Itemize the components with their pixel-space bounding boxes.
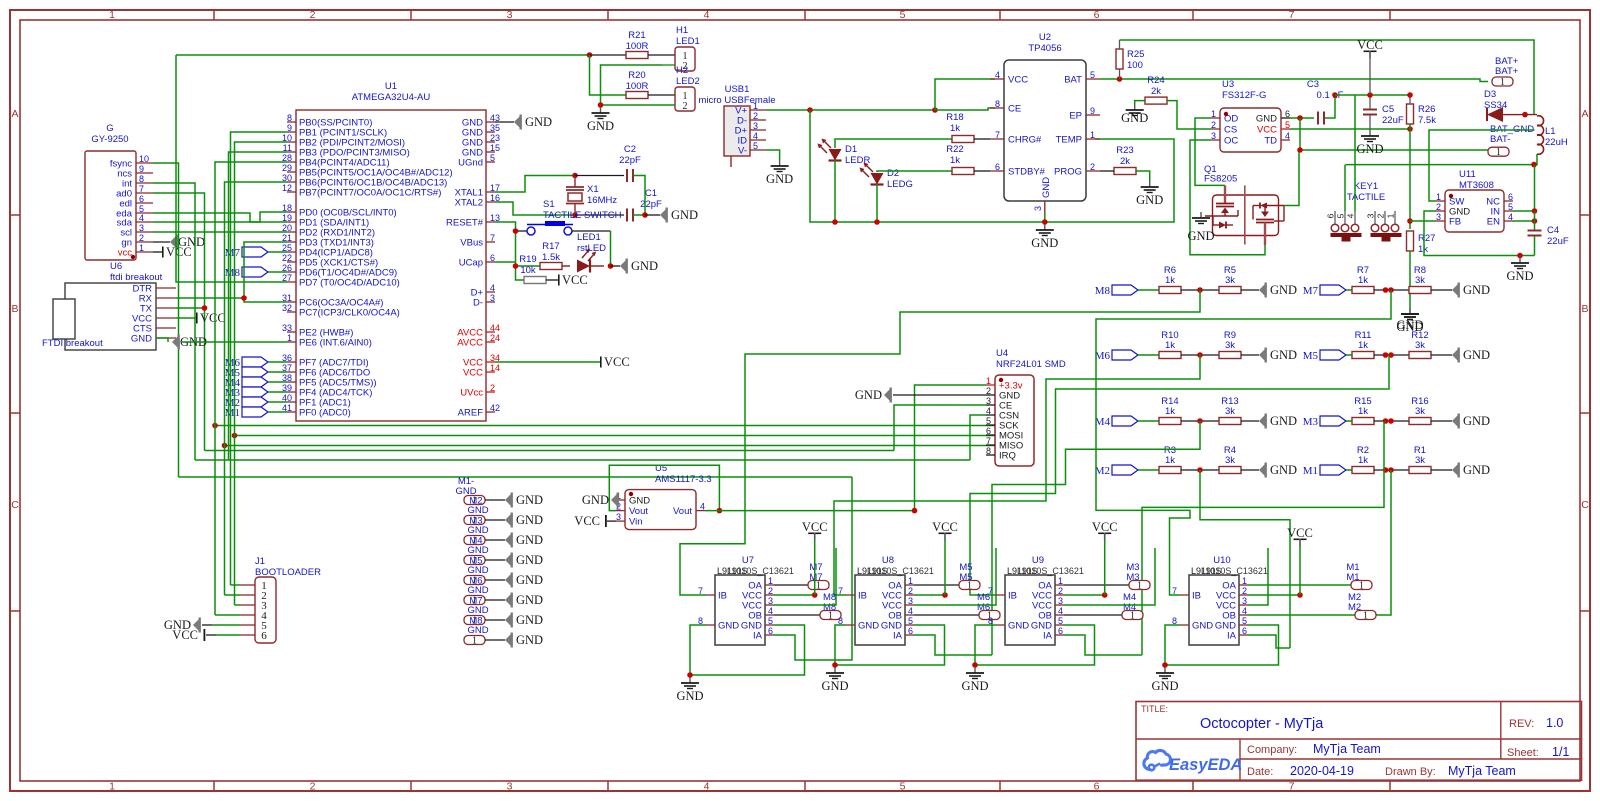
logo EasyEDA (1144, 750, 1242, 774)
ground earth U9 (961, 667, 988, 693)
svg-text:GND: GND (1463, 283, 1490, 297)
junction M3 net a (1383, 418, 1389, 424)
svg-text:U11: U11 (1459, 169, 1476, 180)
wire V+ to U2 CE (935, 108, 995, 110)
net port M3 (1303, 416, 1346, 428)
connector J1 BOOTLOADER (240, 556, 321, 643)
svg-text:1k: 1k (1418, 244, 1428, 255)
svg-text:4: 4 (490, 283, 495, 293)
wire u9 vccdrop (1104, 540, 1106, 595)
svg-text:GND: GND (516, 573, 543, 587)
svg-text:1k: 1k (1358, 455, 1368, 466)
svg-text:3: 3 (1033, 206, 1043, 211)
wire u4 gnd (893, 394, 986, 396)
wire X1bot-C1 (575, 214, 624, 216)
svg-text:BAT+: BAT+ (1495, 66, 1519, 77)
net port M4 (1095, 416, 1138, 428)
svg-text:U9: U9 (1032, 555, 1044, 566)
svg-text:1: 1 (967, 581, 972, 592)
connector U9 out1 (1129, 581, 1150, 592)
wire u8 ob (914, 614, 979, 616)
svg-text:VCC: VCC (200, 311, 226, 325)
wire u7 gnd5 (690, 625, 805, 675)
svg-text:33: 33 (282, 323, 292, 333)
wire u10 ob (1248, 614, 1355, 616)
connector U8 out2 (979, 611, 1000, 622)
wire C2-right (633, 176, 645, 216)
junction u9 gnd (972, 662, 978, 668)
connector USB1 micro USBFemale (698, 84, 775, 167)
svg-text:GND: GND (629, 496, 650, 507)
resistor R18 1k (946, 112, 974, 143)
svg-text:2k: 2k (1151, 86, 1161, 97)
wire M2 (1138, 469, 1159, 471)
wire M7 drop (1096, 290, 1391, 595)
svg-text:FS312F-G: FS312F-G (1222, 90, 1266, 101)
svg-text:100: 100 (1127, 60, 1143, 71)
ground earth U10 (1151, 667, 1178, 693)
svg-text:IB: IB (1008, 591, 1017, 602)
svg-text:VCC: VCC (1287, 526, 1313, 540)
svg-text:U8: U8 (882, 555, 894, 566)
svg-text:7: 7 (1289, 9, 1295, 21)
wire G ad0 down (153, 193, 205, 451)
svg-text:2: 2 (986, 386, 991, 396)
svg-text:GND: GND (467, 525, 488, 536)
wire bus1 SCK (215, 425, 995, 427)
svg-text:1: 1 (753, 101, 758, 111)
svg-text:3: 3 (490, 293, 495, 303)
connector U6 ftdi breakout (42, 261, 176, 350)
svg-text:R26: R26 (1418, 104, 1435, 115)
svg-text:35: 35 (490, 123, 500, 133)
svg-text:V-: V- (738, 146, 747, 157)
svg-text:D2: D2 (887, 168, 899, 179)
wire u8 vccdrop (944, 540, 946, 595)
svg-text:1: 1 (472, 636, 477, 647)
svg-text:7: 7 (995, 130, 1000, 140)
svg-text:R25: R25 (1127, 49, 1144, 60)
svg-text:REV:: REV: (1509, 718, 1534, 730)
junction batminus (1297, 147, 1303, 153)
wire to R21 (590, 54, 627, 56)
junction VCC branch (932, 107, 938, 113)
resistor R19 10k (519, 254, 546, 284)
svg-text:VCC: VCC (1257, 125, 1277, 136)
text U8 M6 (977, 592, 990, 613)
svg-text:GND: GND (467, 505, 488, 516)
svg-text:6: 6 (1094, 9, 1100, 21)
svg-text:GND: GND (516, 553, 543, 567)
junction L1 bot (1531, 162, 1537, 168)
ground flag G-gn (170, 235, 205, 250)
svg-text:U10: U10 (1213, 555, 1230, 566)
ground flag col6 (505, 613, 543, 628)
svg-text:4: 4 (1508, 212, 1513, 222)
svg-text:U3: U3 (1222, 79, 1234, 90)
wire R22-STDBY (974, 170, 990, 172)
ground earth USB (766, 160, 793, 186)
svg-text:7: 7 (1289, 781, 1295, 793)
wire U6 VCC (176, 317, 196, 319)
svg-text:GND: GND (1136, 193, 1163, 207)
svg-text:1: 1 (139, 243, 144, 253)
sensor G GY-9250 (85, 123, 153, 260)
resistor R8 3k (1409, 265, 1431, 294)
wire R6-R5 (1181, 289, 1219, 291)
junction bus1 (212, 423, 218, 429)
wire u5 vin (607, 520, 616, 522)
capacitor C1 22pF (627, 188, 662, 222)
svg-text:Date:: Date: (1247, 766, 1273, 778)
wire R26-R27 (1409, 124, 1411, 229)
svg-text:3k: 3k (1225, 275, 1235, 286)
svg-text:5: 5 (1058, 616, 1063, 626)
svg-text:29: 29 (282, 163, 292, 173)
wire vert pb2 to J1 pin3 (235, 142, 288, 605)
svg-text:FTDI breakout: FTDI breakout (42, 338, 103, 349)
wire U2 GND3 (1044, 213, 1046, 222)
svg-text:6: 6 (261, 630, 267, 642)
svg-text:M7: M7 (1303, 285, 1319, 297)
svg-text:GND: GND (467, 585, 488, 596)
svg-text:4: 4 (1346, 213, 1356, 218)
wire u8 gnd5 (835, 625, 945, 665)
power flag VCC U10 (1287, 526, 1313, 547)
svg-text:C: C (11, 499, 19, 511)
junction M1 net a (1383, 467, 1389, 473)
wire U3 VCC5 (1290, 128, 1410, 130)
wire U3 gnd6 (1290, 117, 1314, 119)
svg-text:VCC: VCC (802, 520, 828, 534)
svg-text:IA: IA (753, 631, 763, 642)
wire u7 vcc (774, 594, 815, 596)
wire C4 bottom (1534, 236, 1536, 256)
connector 1- gnd (464, 636, 485, 647)
svg-text:PD7 (T0/OC4D/ADC10): PD7 (T0/OC4D/ADC10) (299, 278, 400, 289)
svg-text:GND: GND (467, 605, 488, 616)
svg-text:B: B (11, 303, 18, 315)
svg-text:VCC: VCC (932, 520, 958, 534)
wire u10 oa (1248, 584, 1351, 586)
wire U6 TX (176, 307, 205, 309)
svg-text:GND: GND (766, 172, 793, 186)
junction M3 net b (1388, 418, 1394, 424)
svg-text:M3: M3 (1303, 416, 1319, 428)
svg-text:2: 2 (1090, 162, 1095, 172)
svg-text:H2: H2 (676, 65, 688, 76)
wire H2 pin2 (601, 104, 676, 106)
wire u8 oa (914, 584, 959, 586)
svg-text:B: B (1581, 303, 1588, 315)
net port M6 at U1 PF (225, 357, 268, 369)
capacitor C2 22pF (619, 144, 641, 182)
wire u7 ob (774, 614, 820, 616)
junction u10 vcc (1297, 592, 1303, 598)
svg-text:EP: EP (1069, 111, 1082, 122)
svg-text:6: 6 (139, 194, 144, 204)
wire M8 drop to U7 IB (680, 290, 1200, 595)
resistor R14 1k (1159, 396, 1181, 425)
svg-text:1k: 1k (1358, 340, 1368, 351)
svg-text:D-: D- (473, 298, 483, 309)
svg-text:C5: C5 (1382, 104, 1394, 115)
svg-text:IA: IA (1227, 631, 1237, 642)
wire u9 ia riser (1064, 635, 1142, 655)
svg-text:D1: D1 (845, 144, 857, 155)
svg-text:2: 2 (490, 383, 495, 393)
svg-text:2: 2 (1058, 586, 1063, 596)
svg-text:1: 1 (1242, 576, 1247, 586)
svg-text:UGnd: UGnd (458, 158, 483, 169)
junction D1 gnd (832, 219, 838, 225)
svg-text:S1: S1 (543, 199, 555, 210)
svg-text:EasyEDA: EasyEDA (1169, 756, 1242, 774)
net port M8 at U1 PD6 (225, 267, 268, 279)
svg-text:TD: TD (1264, 136, 1277, 147)
svg-text:22uF: 22uF (1382, 115, 1404, 126)
wire M6- gnd (485, 579, 505, 581)
svg-text:6: 6 (1242, 626, 1247, 636)
wire G scl to U1 PD2 (153, 231, 287, 233)
svg-text:2k: 2k (1120, 156, 1130, 167)
junction M8 net (1197, 287, 1203, 293)
svg-text:R24: R24 (1147, 75, 1164, 86)
net port M1 at U1 PF (225, 407, 268, 419)
wire vert pb6 to J1 pin2 (225, 182, 288, 595)
svg-text:VCC: VCC (574, 514, 600, 528)
text U7 M8 (823, 592, 836, 613)
connector M3- gnd (464, 516, 489, 537)
wire vert pb3 (229, 152, 288, 460)
svg-text:1: 1 (109, 781, 115, 793)
svg-text:1k: 1k (1165, 340, 1175, 351)
svg-text:4: 4 (753, 131, 758, 141)
svg-text:3: 3 (1366, 213, 1376, 218)
svg-text:2: 2 (768, 586, 773, 596)
svg-text:U7: U7 (742, 555, 754, 566)
resistor R26 7.5k (1407, 104, 1437, 126)
svg-text:PB7(PCINT7/OC0A/OC1C/RTS#): PB7(PCINT7/OC0A/OC1C/RTS#) (299, 188, 441, 199)
junction M7 net b (1388, 287, 1394, 293)
svg-text:C4: C4 (1547, 225, 1559, 236)
power flag VCC J1 bar (172, 628, 205, 642)
svg-text:OC: OC (1224, 136, 1238, 147)
wire R24 left (1135, 101, 1145, 104)
junction u7 gnd (687, 672, 693, 678)
svg-text:1: 1 (816, 581, 821, 592)
resistor R25 100 (1116, 40, 1144, 79)
wire X1top-C2 (575, 175, 624, 177)
svg-text:Octocopter - MyTja: Octocopter - MyTja (1200, 716, 1324, 732)
svg-text:1: 1 (1211, 109, 1216, 119)
svg-text:2: 2 (753, 111, 758, 121)
junction U2 gnd (1042, 219, 1048, 225)
wire R2-R1 (1374, 469, 1409, 471)
resistor R2 1k (1352, 445, 1374, 474)
mosfet Q1 FS8205 (1204, 164, 1284, 245)
svg-text:6: 6 (1326, 213, 1336, 218)
capacitor C5 22uF (1363, 104, 1404, 126)
junction M7 net a (1383, 287, 1389, 293)
svg-text:VCC: VCC (562, 273, 588, 287)
svg-text:TEMP: TEMP (1056, 135, 1082, 146)
wire M7- gnd (485, 599, 505, 601)
svg-text:M8: M8 (225, 267, 241, 279)
wire R10-R9 (1181, 354, 1219, 356)
wire R5-gnd (1241, 289, 1259, 291)
wire S1 right down (610, 231, 612, 266)
svg-text:7: 7 (986, 436, 991, 446)
power flag VCC U6 (196, 311, 226, 325)
wire U3 OD (1195, 118, 1225, 185)
svg-text:1: 1 (1359, 581, 1364, 592)
svg-text:3k: 3k (1415, 340, 1425, 351)
power flag VCC U7 (802, 520, 828, 541)
ground earth ladder (1401, 308, 1419, 320)
svg-text:M7: M7 (225, 247, 241, 259)
svg-text:CS: CS (1224, 125, 1237, 136)
wire R13-gnd (1241, 420, 1259, 422)
junction M1 net b (1388, 467, 1394, 473)
svg-text:J1: J1 (255, 556, 265, 567)
power flag VCC U8 (932, 520, 958, 541)
ground earth H1H2 (587, 107, 614, 133)
svg-text:32: 32 (282, 303, 292, 313)
wire USB V+ (766, 109, 935, 111)
svg-text:1k: 1k (1358, 406, 1368, 417)
wire M6 (268, 361, 287, 363)
ground earth U2 (1031, 224, 1058, 250)
text BAT- (1490, 134, 1510, 145)
svg-text:C2: C2 (624, 144, 636, 155)
wire u9 gnd8 (975, 625, 996, 665)
wire R27 bottom (1409, 251, 1411, 308)
wire M3 drop to U9 IA (1142, 421, 1384, 655)
resistor R23 2k (1114, 145, 1136, 175)
svg-text:22pF: 22pF (619, 155, 641, 166)
wire U6 RX (176, 297, 244, 299)
svg-text:BAT: BAT (1064, 75, 1082, 86)
regulator U5 AMS1117-3.3 (616, 463, 712, 530)
svg-text:R19: R19 (519, 254, 536, 265)
svg-text:2: 2 (310, 9, 316, 21)
svg-text:5: 5 (908, 616, 913, 626)
ground flag rstLED (620, 259, 658, 274)
connector U9 out2 (1122, 611, 1143, 622)
wire USB V- (766, 150, 780, 160)
connector M4- gnd (464, 536, 489, 557)
wire M1 drop to U10 OB (1376, 470, 1391, 615)
svg-text:1: 1 (908, 576, 913, 586)
connector H2 LED2 (675, 65, 700, 112)
wire to gndflag rst (611, 265, 621, 267)
wire G fsync down (153, 163, 179, 477)
svg-text:GND: GND (1463, 463, 1490, 477)
wire G int down (153, 183, 195, 460)
resistor R3 1k (1159, 445, 1181, 474)
wire j1p4 (215, 614, 240, 616)
svg-text:U2: U2 (1039, 32, 1051, 43)
text M1- header (455, 476, 476, 497)
resistor R6 1k (1159, 265, 1181, 294)
svg-text:GND: GND (631, 259, 658, 273)
svg-text:5: 5 (900, 781, 906, 793)
wire M5 drop to U9 IB (970, 355, 1389, 595)
ground earth R27 (1396, 308, 1423, 334)
resistor R11 1k (1352, 330, 1374, 359)
svg-text:R21: R21 (628, 30, 645, 41)
wire VCC right down (1369, 58, 1371, 95)
wire u7 gnd8 (690, 625, 706, 675)
svg-text:GND: GND (131, 334, 152, 345)
wire H1 pin2 down (601, 65, 663, 105)
svg-text:4: 4 (139, 213, 144, 223)
junction C4 gnd (1517, 253, 1523, 259)
ground flag R16 (1452, 414, 1490, 429)
ground flag col3 (505, 553, 543, 568)
svg-text:M1: M1 (1303, 465, 1318, 477)
ground flag R9 (1259, 348, 1297, 363)
junction u9 vcc (1102, 592, 1108, 598)
junction X1 top (572, 173, 578, 179)
junction C5 top (1367, 92, 1373, 98)
svg-text:4: 4 (768, 606, 773, 616)
wire 3v3 rail (705, 510, 915, 512)
svg-text:LEDG: LEDG (887, 179, 913, 190)
wire M8 (1138, 289, 1159, 291)
resistor R5 3k (1219, 265, 1241, 294)
svg-text:GND: GND (1270, 283, 1297, 297)
junction reset sw (513, 228, 519, 234)
svg-text:2: 2 (1242, 586, 1247, 596)
svg-text:MyTja Team: MyTja Team (1313, 742, 1381, 756)
svg-text:AMS1117-3.3: AMS1117-3.3 (655, 474, 712, 485)
wire 1- gnd (485, 639, 505, 641)
svg-text:D3: D3 (1484, 89, 1496, 100)
wire U3 OC (1190, 140, 1265, 255)
wire u5 vout2 loop (609, 465, 719, 510)
wire U1 pin43 to GND (495, 121, 514, 123)
svg-text:IB: IB (858, 591, 867, 602)
svg-text:M5: M5 (1303, 350, 1319, 362)
text U7 M7 (809, 562, 822, 583)
wire UCap (495, 261, 516, 263)
diode D3 SS34 (1484, 89, 1519, 122)
wire bus4 CE (205, 450, 895, 452)
wire M3- gnd (485, 519, 505, 521)
rf module U4 NRF24L01 SMD (986, 348, 1066, 466)
net port M5 at U1 PF (225, 367, 268, 379)
capacitor C4 22uF (1528, 225, 1569, 247)
ground flag R8 (1452, 283, 1490, 298)
svg-text:GND: GND (1192, 621, 1213, 632)
svg-text:22uF: 22uF (1547, 236, 1569, 247)
ground earth C5 (1356, 130, 1383, 156)
svg-text:M2: M2 (1095, 465, 1110, 477)
wire M5 (268, 371, 287, 373)
svg-text:3: 3 (1436, 212, 1441, 222)
net port M8 (1095, 285, 1138, 297)
wire M7 (1346, 289, 1352, 291)
regulator U11 MT3608 (1436, 169, 1513, 232)
power flag VCC U1-34 (600, 355, 630, 369)
svg-text:GND: GND (582, 493, 609, 507)
wire u10 ia riser (1248, 635, 1290, 648)
switch S1 TACTILE SWITCH (516, 199, 622, 235)
svg-text:4: 4 (1058, 606, 1063, 616)
ground flag R4 (1259, 463, 1297, 478)
